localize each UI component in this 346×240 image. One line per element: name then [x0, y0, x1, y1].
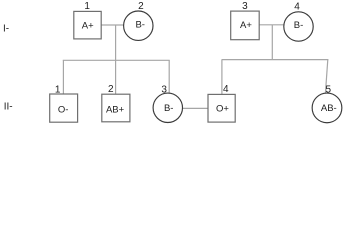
individual II-5 circle AB-: [312, 93, 342, 123]
individual II-4 square O+: [208, 94, 235, 122]
svg-text:I-: I-: [3, 24, 9, 35]
svg-text:2: 2: [108, 84, 114, 95]
wire: couple1 sibling line: [63, 59, 170, 61]
svg-text:B-: B-: [164, 103, 174, 114]
individual I-1 square A+: [74, 11, 101, 39]
svg-text:2: 2: [138, 1, 144, 12]
wire: couple1 marriage line: [101, 24, 123, 26]
svg-text:AB+: AB+: [106, 105, 125, 116]
wire: couple2 descent: [271, 25, 273, 60]
wire: couple2 marriage line: [259, 24, 283, 26]
svg-text:O+: O+: [216, 103, 229, 114]
wire: child3 drop: [168, 60, 170, 93]
svg-text:1: 1: [55, 85, 61, 96]
wire: child1 drop: [62, 60, 64, 94]
svg-text:A+: A+: [240, 20, 252, 31]
svg-text:AB-: AB-: [321, 103, 337, 114]
svg-text:II-: II-: [4, 101, 13, 112]
individual II-2 square AB+: [102, 94, 130, 122]
svg-text:B-: B-: [135, 20, 145, 31]
individual I-3 square A+: [231, 11, 260, 40]
individual I-2 circle B-: [124, 11, 153, 40]
svg-text:1: 1: [84, 1, 90, 12]
wire: II-3 II-4 marriage line: [182, 107, 208, 109]
svg-text:5: 5: [326, 84, 332, 95]
svg-text:3: 3: [242, 1, 248, 12]
wire: child4 drop: [221, 60, 223, 95]
individual II-3 circle B-: [153, 93, 182, 122]
individual I-4 circle B-: [284, 12, 313, 41]
wire: couple1 descent + child2 drop: [115, 25, 117, 94]
svg-text:A+: A+: [82, 20, 94, 31]
svg-text:4: 4: [294, 1, 300, 12]
individual II-1 square O-: [50, 94, 78, 122]
svg-text:3: 3: [161, 84, 167, 95]
svg-text:B-: B-: [294, 20, 304, 31]
wire: couple2 sibling line: [222, 59, 329, 61]
svg-text:O-: O-: [58, 105, 69, 116]
wire: child5 drop: [325, 60, 327, 94]
svg-text:4: 4: [223, 84, 229, 95]
